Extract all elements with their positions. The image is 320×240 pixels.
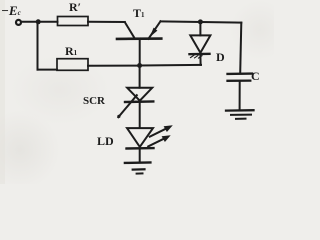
wire T1 to top-right rail: [161, 21, 242, 22]
label T1: [133, 6, 145, 21]
label R': [69, 0, 81, 15]
resistor R1: [57, 59, 88, 71]
node B junction dot (diode top): [198, 19, 203, 24]
node A junction dot: [36, 19, 41, 24]
label R1: [65, 44, 77, 59]
wire terminal to node A: [21, 21, 38, 23]
label C: [251, 69, 260, 84]
label SCR: [83, 95, 105, 107]
label -E: [1, 3, 21, 19]
laser diode LD: [127, 125, 173, 162]
node C junction dot (base rail): [137, 63, 142, 68]
terminal -E: [16, 20, 21, 25]
wire top rail corner down to capacitor: [240, 23, 241, 74]
ground (below LD): [125, 163, 150, 174]
label LD: [97, 134, 114, 149]
label D: [216, 50, 225, 65]
wire node C to diode cathode stub: [140, 64, 201, 67]
capacitor C: [228, 74, 253, 110]
transistor T1: [117, 21, 161, 65]
ground (right, below C): [226, 110, 254, 119]
wire node A down (left branch): [37, 22, 39, 70]
wire node A to R': [38, 21, 58, 23]
wire R' to T1 emitter: [88, 21, 125, 23]
diode D: [190, 22, 211, 65]
wire R1 to node C: [88, 65, 140, 67]
SCR: [117, 66, 153, 128]
resistor R': [58, 17, 89, 26]
wire left corner to R1: [38, 69, 58, 71]
